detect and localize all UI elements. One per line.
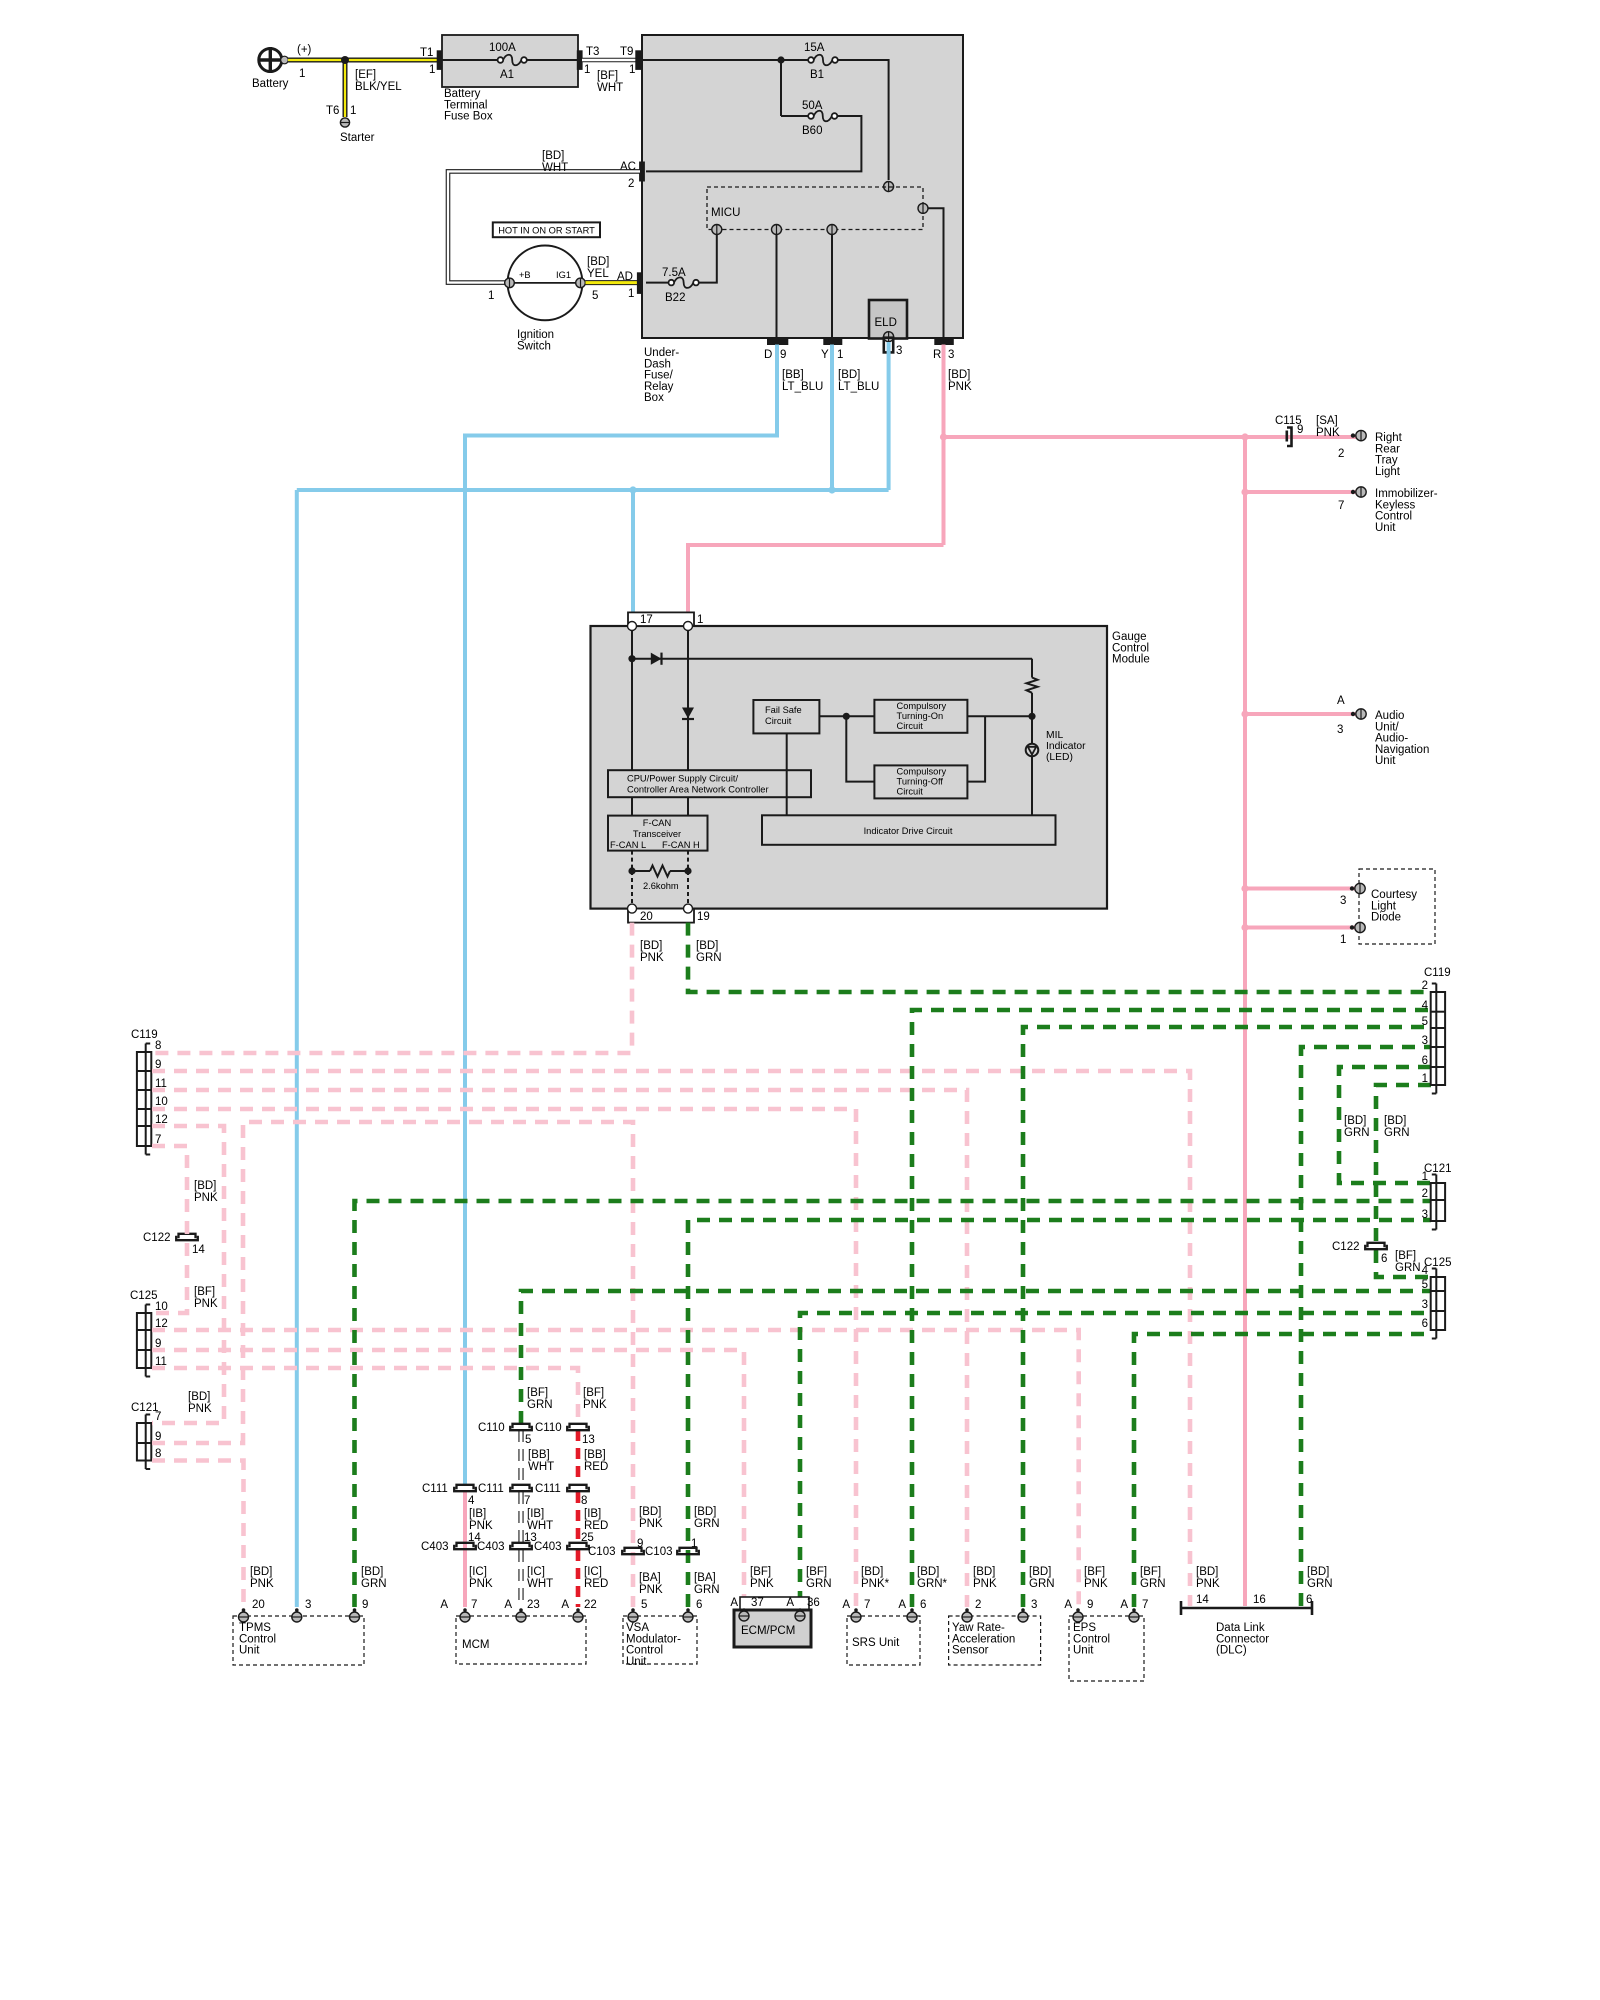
svg-text:LT_BLU: LT_BLU [838,381,879,393]
yaw pin labels [975,1599,1037,1611]
ELD pin 3 bar [884,338,893,353]
svg-text:[IC]: [IC] [527,1566,545,1578]
svg-text:3: 3 [305,1599,311,1611]
svg-text:Indicator: Indicator [1046,741,1086,752]
svg-text:Yaw Rate-: Yaw Rate- [952,1622,1005,1634]
[BF] WHT label [597,70,623,94]
net [BD] GRN C119R-1 via C122-6 to C125R-4 [1376,1085,1431,1277]
DLC label [1216,1622,1269,1657]
svg-text:1: 1 [691,1538,697,1550]
svg-text:Immobilizer-: Immobilizer- [1375,488,1438,500]
ELD terminal [884,332,894,342]
svg-text:2.6kohm: 2.6kohm [643,881,679,891]
svg-text:(DLC): (DLC) [1216,1645,1247,1657]
diode D1 right-pointing [651,653,662,665]
svg-text:T3: T3 [586,46,599,58]
svg-text:14: 14 [1196,1594,1209,1606]
svg-text:[BF]: [BF] [194,1286,215,1298]
svg-text:Tray: Tray [1375,455,1398,467]
svg-text:[BD]: [BD] [250,1566,272,1578]
junction GCM internal [628,655,635,662]
net [BD] GRN SRS A6 to C119R-4 [912,1010,1431,1607]
svg-text:A1: A1 [500,69,514,81]
svg-text:Light: Light [1375,466,1401,478]
svg-text:13: 13 [582,1434,595,1446]
svg-text:[BD]: [BD] [694,1506,716,1518]
svg-text:GRN: GRN [361,1578,387,1590]
terminal T3 [577,51,582,70]
ECM/PCM pin labels [730,1597,819,1609]
svg-text:PNK: PNK [1084,1578,1108,1590]
svg-text:[IB]: [IB] [469,1508,486,1520]
connector C119 right [1422,967,1451,1094]
svg-text:[SA]: [SA] [1316,415,1338,427]
wire PNK to GCM pin1 [688,545,944,612]
pink trunk vertical to DLC16 [1243,437,1247,1606]
svg-text:C122: C122 [1332,1241,1360,1253]
svg-text:YEL: YEL [587,268,609,280]
terminal Y pin bar [824,338,842,345]
connector C119 left [131,1029,168,1155]
svg-text:[BB]: [BB] [528,1449,550,1461]
svg-text:WHT: WHT [527,1520,553,1532]
svg-text:14: 14 [192,1244,205,1256]
svg-text:BLK/YEL: BLK/YEL [355,81,402,93]
Indicator Drive Circuit box [762,815,1056,845]
svg-text:Courtesy: Courtesy [1371,889,1417,901]
net [BD] PNK C119-10 to SRS A7 [152,1109,856,1607]
svg-text:4: 4 [1422,1000,1429,1012]
svg-text:Navigation: Navigation [1375,744,1429,756]
net [BD] PNK C119-11 to yaw sensor pin2 [152,1090,967,1607]
svg-text:PNK: PNK [194,1192,218,1204]
connector C122 left pin 14 [143,1232,205,1256]
svg-text:B60: B60 [802,125,822,137]
svg-text:PNK: PNK [469,1520,493,1532]
junction LT_BLU at Y1 column [828,486,835,493]
svg-text:6: 6 [1422,1055,1428,1067]
svg-text:WHT: WHT [528,1461,554,1473]
wire branch to starter [343,60,348,117]
svg-text:9: 9 [637,1538,643,1550]
wire to turning-off circuit [846,716,874,781]
svg-text:Rear: Rear [1375,443,1400,455]
svg-text:1: 1 [299,68,305,80]
MIL indicator LED [1026,716,1039,815]
svg-text:1: 1 [488,290,494,302]
wire LT_BLU ELD pin3 down [887,342,891,490]
svg-text:Terminal: Terminal [444,99,487,111]
svg-text:A: A [1064,1599,1072,1611]
[BB] RED label [584,1449,608,1473]
svg-text:5: 5 [525,1434,531,1446]
svg-text:3: 3 [1422,1299,1428,1311]
svg-text:6: 6 [1306,1594,1312,1606]
wire LT_BLU to GCM pin17 [631,490,635,612]
svg-text:[BD]: [BD] [1344,1115,1366,1127]
svg-text:[BA]: [BA] [694,1572,716,1584]
svg-text:GRN: GRN [806,1578,832,1590]
svg-text:36: 36 [807,1597,820,1609]
yaw sensor terminals [962,1608,1028,1622]
[IC] PNK label [469,1566,493,1590]
svg-text:[IB]: [IB] [527,1508,544,1520]
connector C111 pin7 [478,1483,532,1507]
net [BF] GRN EPS A7 to C125R-6 [1134,1334,1431,1607]
wire PNK to audio unit [1245,712,1357,716]
svg-text:1: 1 [350,105,356,117]
svg-text:[BF]: [BF] [597,70,618,82]
svg-text:ECM/PCM: ECM/PCM [741,1625,795,1637]
fuse A1 100A [489,42,527,81]
EPS Control Unit box [1069,1616,1144,1681]
svg-text:RED: RED [584,1461,608,1473]
svg-text:[BF]: [BF] [1084,1566,1105,1578]
MCM terminals [460,1608,583,1622]
svg-text:[BD]: [BD] [861,1566,883,1578]
svg-text:B22: B22 [665,292,685,304]
Fail Safe Circuit box [753,700,819,733]
svg-text:9: 9 [1087,1599,1093,1611]
GCM pin 20 circle [628,904,637,913]
svg-text:C111: C111 [535,1483,561,1495]
svg-text:Unit: Unit [626,1656,647,1668]
svg-text:3: 3 [896,345,902,357]
svg-text:C103: C103 [588,1546,616,1558]
svg-text:Battery: Battery [444,88,481,100]
ignition switch SW [508,246,583,321]
svg-text:PNK: PNK [640,952,664,964]
svg-text:Control: Control [1112,642,1149,654]
resistor R1 vertical [1027,659,1038,717]
svg-text:Starter: Starter [340,132,375,144]
svg-text:3: 3 [1337,724,1343,736]
svg-text:5: 5 [641,1599,647,1611]
svg-text:C111: C111 [478,1483,504,1495]
svg-text:C403: C403 [477,1541,505,1553]
svg-text:TPMS: TPMS [239,1622,271,1634]
Right Rear Tray Light label [1375,432,1403,478]
svg-text:Controller Area Network Contro: Controller Area Network Controller [627,785,769,795]
courtesy diode terminal pin 3 [1350,883,1365,893]
svg-text:20: 20 [252,1599,265,1611]
svg-text:1: 1 [1422,1171,1428,1183]
wire through battery fuse box [442,59,578,61]
svg-text:100A: 100A [489,42,516,54]
svg-text:PNK: PNK [1316,427,1340,439]
SRS terminals [851,1608,917,1622]
connector C111 pin4 [422,1483,476,1507]
svg-text:1: 1 [584,64,590,76]
GCM pin 17 circle [628,622,637,631]
svg-text:[EF]: [EF] [355,69,376,81]
fuse B60 50A [802,100,837,137]
svg-text:15A: 15A [804,42,825,54]
net [BD] PNK C119-12 to C121-7 [152,1126,224,1423]
wire PNK to immobilizer [1245,490,1357,494]
wire [BF] WHT T3 to T9 [582,58,636,63]
svg-text:5: 5 [1422,1279,1428,1291]
svg-text:Under-: Under- [644,347,679,359]
svg-text:IG1: IG1 [556,270,571,280]
SRS wire color labels [861,1566,948,1590]
svg-text:D: D [764,349,772,361]
svg-text:GRN: GRN [694,1518,720,1530]
svg-text:Audio-: Audio- [1375,733,1408,745]
Compulsory Turning-On Circuit box [874,700,967,733]
AC labels [620,161,636,190]
wire fail safe to junction [820,715,875,717]
svg-text:7: 7 [471,1599,477,1611]
svg-text:Unit: Unit [1375,522,1396,534]
svg-text:Data Link: Data Link [1216,1622,1265,1634]
T9 labels [620,46,635,76]
MICU box [707,187,923,230]
svg-text:Connector: Connector [1216,1633,1269,1645]
ignition switch contact line [514,282,576,284]
wire fail-safe bottom to indicator drive [786,733,788,815]
connector C125 right [1422,1257,1452,1339]
wire branch to fuse B60 [780,60,782,116]
wire [IC] WHT C403-13 to MCM A23 [518,1550,523,1607]
dashed leads to pins 20/19 [632,871,688,909]
[BF] PNK label C122 net [194,1286,218,1310]
svg-text:WHT: WHT [527,1578,553,1590]
svg-text:3: 3 [1422,1209,1428,1221]
wire LT_BLU to TPMS pin3 [295,490,299,1607]
DLC pin labels [1196,1594,1312,1606]
svg-text:8: 8 [155,1040,161,1052]
svg-text:20: 20 [640,911,653,923]
svg-text:Switch: Switch [517,340,551,352]
[BF] PNK label above C110-13 [583,1387,607,1411]
terminal T9 [636,51,641,70]
net [BD] GRN GCM19 to C119R-2 [688,923,1431,992]
MCM pin labels [440,1599,596,1611]
wire [BD] LT_BLU Y1 down [830,345,834,491]
svg-text:PNK: PNK [469,1578,493,1590]
GCM internal top rail [632,658,1032,660]
junction MIL rail [1028,713,1035,720]
under-dash output labels [764,345,954,361]
svg-text:C119: C119 [131,1029,158,1041]
terminal T1 [437,51,442,70]
net [BD] PNK C119-9 to DLC14 [152,1071,1190,1606]
svg-text:Gauge: Gauge [1112,631,1147,643]
svg-text:1: 1 [1340,934,1346,946]
TPMS pin labels [252,1599,368,1611]
wire [IC] RED C403-25 to MCM A22 [576,1550,581,1607]
svg-text:A: A [730,1597,738,1609]
svg-text:[BD]: [BD] [587,256,609,268]
net [BD] PNK C121-9 to VSA pin5 via C103-9 [152,1122,633,1607]
terminal R pin bar [935,338,954,345]
TPMS label [239,1622,276,1657]
[IB] WHT label [527,1508,553,1532]
[BF] GRN label near C122 right [1395,1250,1421,1274]
ECM/PCM box [734,1610,811,1647]
wire PNK branch to right trunk [944,435,1358,439]
svg-text:9: 9 [1297,424,1303,436]
svg-text:Ignition: Ignition [517,329,554,341]
VSA pin labels [641,1599,702,1611]
svg-text:Circuit: Circuit [897,721,924,731]
svg-text:GRN: GRN [1307,1578,1333,1590]
svg-text:Fail Safe: Fail Safe [765,705,802,715]
net [BD] GRN C119R-6 to C121R-1 [1339,1067,1431,1183]
net [BD] PNK C121-8 to TPMS pin20 [152,1461,244,1608]
GCM label [1112,631,1150,666]
svg-text:2: 2 [1338,448,1344,460]
svg-text:[BF]: [BF] [1395,1250,1416,1262]
wire turning-off output [967,716,985,781]
wire MICU to terminal R [928,208,944,338]
AD labels [617,271,634,300]
GCM pin20/19 output labels [640,940,722,964]
svg-text:1: 1 [837,349,843,361]
Battery Terminal Fuse Box label [444,88,493,123]
svg-text:22: 22 [584,1599,597,1611]
svg-text:[BD]: [BD] [194,1180,216,1192]
wire AD to fuse B22 [646,282,669,284]
svg-text:A: A [898,1599,906,1611]
svg-text:SRS Unit: SRS Unit [852,1637,900,1649]
svg-text:25: 25 [581,1532,594,1544]
svg-text:3: 3 [1340,895,1346,907]
connector C122 right pin 6 [1332,1241,1387,1265]
svg-text:C103: C103 [645,1546,673,1558]
net [BD] GRN TPMS pin9 to C121R-2 [355,1201,1432,1607]
svg-text:PNK: PNK [750,1578,774,1590]
ECM wire color labels [750,1566,832,1590]
svg-text:[BD]: [BD] [838,369,860,381]
terminal AC [640,162,645,181]
svg-text:Right: Right [1375,432,1403,444]
wire [BD] YEL IG1 to AD [586,280,638,285]
battery B1 (+) symbol [258,47,289,73]
F-CAN Transceiver box [608,816,708,851]
Yaw Rate-Acceleration Sensor box [949,1616,1041,1665]
svg-text:[BD]: [BD] [1307,1566,1329,1578]
svg-text:Compulsory: Compulsory [897,767,947,777]
svg-text:EPS: EPS [1073,1622,1096,1634]
svg-text:Transceiver: Transceiver [633,829,681,839]
[IB] PNK label [469,1508,493,1532]
svg-text:GRN: GRN [694,1584,720,1596]
svg-text:C121: C121 [1424,1163,1452,1175]
[BB] WHT label [528,1449,554,1473]
svg-text:4: 4 [1422,1265,1429,1277]
svg-text:1: 1 [629,64,635,76]
svg-text:[BF]: [BF] [750,1566,771,1578]
wire color labels under box [782,369,972,393]
svg-text:A: A [786,1597,794,1609]
net [BD] GRN DLC6 to C119R-3 [1301,1047,1431,1606]
connector C110 pin5 [478,1422,532,1446]
svg-text:Turning-Off: Turning-Off [897,777,944,787]
svg-text:Light: Light [1371,900,1397,912]
svg-text:VSA: VSA [626,1622,649,1634]
T3 labels [584,46,599,76]
wire [BB] WHT C110-5 to C111-7 [518,1430,523,1484]
svg-text:Y: Y [821,349,829,361]
svg-text:HOT IN ON OR START: HOT IN ON OR START [498,225,595,235]
svg-text:AD: AD [617,271,633,283]
svg-text:Unit: Unit [1375,755,1396,767]
svg-text:Control: Control [1073,1633,1110,1645]
wire [BB] LT_BLU D9 to MCM via C111 [465,345,777,1487]
[BA] GRN label [694,1572,720,1596]
junction 15A/50A feed [777,56,784,63]
[BD] YEL label [587,256,609,280]
HOT IN ON OR START box [493,222,600,237]
svg-text:[IC]: [IC] [584,1566,602,1578]
connector C103 pin1 [645,1538,699,1558]
right rear tray light terminal [1351,430,1366,440]
svg-text:[BF]: [BF] [527,1387,548,1399]
[BF] GRN label above C110 [527,1387,553,1411]
svg-text:A: A [504,1599,512,1611]
svg-text:A: A [842,1599,850,1611]
SRS pin labels [842,1599,926,1611]
fuse B1 15A [804,42,838,81]
net [BF] GRN ECM A36 to C125R-3 [800,1313,1431,1604]
MICU feed terminal top [884,182,894,192]
svg-text:C110: C110 [478,1422,505,1434]
svg-text:C125: C125 [1424,1257,1452,1269]
GCM pin1 internal wire [687,631,689,771]
svg-text:5: 5 [1422,1016,1428,1028]
EPS wire color labels [1084,1566,1166,1590]
svg-text:[BD]: [BD] [640,940,662,952]
svg-text:GRN: GRN [1344,1127,1370,1139]
TPMS wire color labels [250,1566,387,1590]
wire [BD] PNK R3 down [942,345,946,546]
wire PNK to courtesy diode pin3 [1245,887,1360,891]
svg-text:RED: RED [584,1578,608,1590]
starter terminal T6 [340,118,349,127]
junction battery/starter branch [341,56,349,64]
svg-text:C403: C403 [421,1541,449,1553]
svg-text:Unit/: Unit/ [1375,721,1399,733]
net [BD] PNK GCM20 to C119-8 [152,923,632,1053]
ignition switch labels [488,270,598,352]
svg-text:7: 7 [1338,500,1344,512]
connector C115 pin 9 [1287,428,1292,447]
svg-text:Control: Control [239,1633,276,1645]
svg-text:[BF]: [BF] [583,1387,604,1399]
ignition terminal +B pin 1 [505,278,515,288]
wire B60 to terminal AC [646,116,861,171]
svg-text:[BF]: [BF] [1140,1566,1161,1578]
SRS Unit box [847,1616,920,1665]
svg-text:T6: T6 [326,105,339,117]
svg-text:[BD]: [BD] [542,150,564,162]
svg-text:GRN: GRN [1395,1262,1421,1274]
audio unit labels [1337,695,1429,767]
svg-text:WHT: WHT [542,162,568,174]
ECM/PCM pin header [740,1597,809,1610]
svg-text:7: 7 [864,1599,870,1611]
svg-text:Modulator-: Modulator- [626,1633,681,1645]
svg-text:PNK: PNK [188,1403,212,1415]
svg-text:C119: C119 [1424,967,1451,979]
svg-text:GRN: GRN [1140,1578,1166,1590]
svg-text:CPU/Power Supply Circuit/: CPU/Power Supply Circuit/ [627,774,738,784]
MCM box [456,1616,586,1664]
[BD] WHT label [542,150,568,174]
net [BD] PNK C125-12 to EPS A9 [152,1330,1079,1607]
